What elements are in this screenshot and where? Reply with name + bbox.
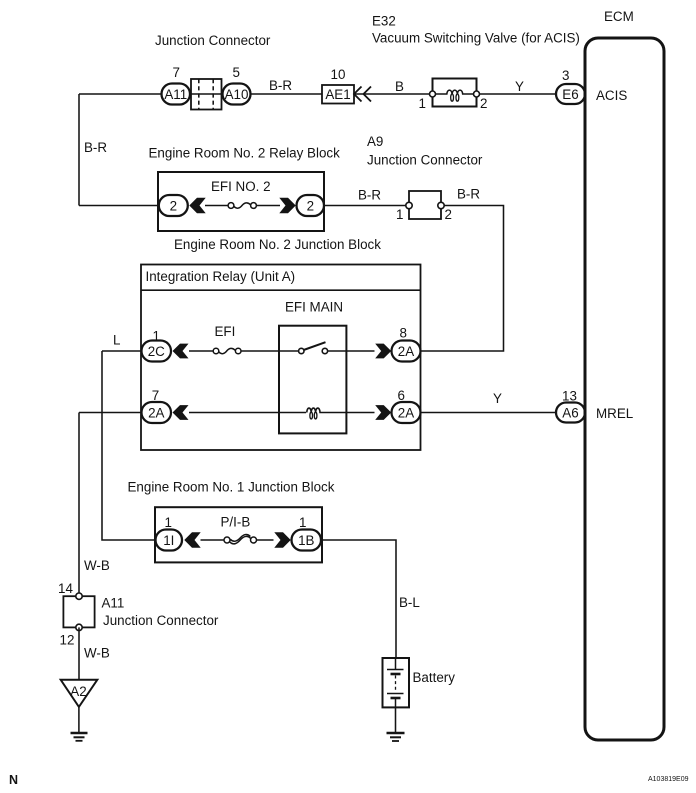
wire 1B to battery [321, 540, 396, 658]
connector 1B [292, 530, 322, 551]
arrow right [274, 532, 290, 548]
relay coil [307, 408, 347, 412]
relay switch node right [322, 348, 327, 353]
svg-text:Engine Room No. 2 Relay Block: Engine Room No. 2 Relay Block [149, 146, 341, 161]
VSV pin 1 node [430, 91, 436, 97]
svg-text:AE1: AE1 [325, 87, 350, 102]
svg-text:6: 6 [398, 388, 405, 403]
ground (A2) [71, 732, 88, 735]
svg-text:1: 1 [299, 515, 306, 530]
svg-text:Junction Connector: Junction Connector [155, 33, 271, 48]
svg-text:2A: 2A [398, 405, 414, 420]
wire [201, 539, 225, 541]
arrow left [189, 198, 205, 214]
node pin 1 [406, 202, 412, 208]
svg-text:EFI NO. 2: EFI NO. 2 [211, 179, 271, 194]
wire A9 down to relay pin 8 [421, 206, 504, 352]
svg-text:Vacuum Switching Valve (for AC: Vacuum Switching Valve (for ACIS) [372, 31, 580, 46]
svg-text:B-R: B-R [457, 187, 480, 202]
relay switch blade [304, 342, 326, 350]
svg-text:2A: 2A [148, 405, 164, 420]
connector AE1 [322, 85, 354, 104]
svg-text:W-B: W-B [84, 558, 110, 573]
junction connector A11 box (bottom) [63, 596, 94, 627]
wire VSV to E6 [480, 93, 557, 95]
wire battery to ground [395, 707, 397, 733]
svg-text:5: 5 [233, 65, 240, 80]
svg-text:7: 7 [152, 388, 159, 403]
svg-text:3: 3 [562, 68, 569, 83]
svg-text:MREL: MREL [596, 406, 633, 421]
wire [189, 350, 213, 352]
arrow left [173, 405, 189, 420]
wire into block [79, 205, 159, 207]
svg-text:B-L: B-L [399, 595, 420, 610]
ground (battery) [387, 732, 405, 735]
ground connector A2 triangle [61, 680, 98, 707]
EFI MAIN relay box [279, 326, 346, 434]
svg-text:W-B: W-B [84, 646, 110, 661]
node pin 12 [76, 624, 82, 630]
connector 2 (left) [159, 195, 188, 216]
battery box [383, 658, 410, 707]
svg-text:A2: A2 [70, 684, 86, 699]
svg-text:2: 2 [170, 198, 177, 213]
svg-text:1I: 1I [163, 533, 174, 548]
svg-text:8: 8 [400, 326, 407, 341]
svg-text:B-R: B-R [269, 78, 292, 93]
wire top row from left corner to A11 [79, 93, 162, 95]
connector E6 [556, 84, 585, 104]
svg-text:E6: E6 [562, 87, 578, 102]
svg-text:P/I-B: P/I-B [221, 515, 251, 530]
title divider [141, 289, 421, 291]
svg-text:1: 1 [419, 96, 426, 111]
svg-text:Y: Y [515, 79, 524, 94]
arrow right [375, 405, 391, 420]
svg-text:E32: E32 [372, 14, 396, 29]
fusible link P/I-B [230, 536, 251, 544]
svg-text:Y: Y [493, 391, 502, 406]
arrow right [279, 198, 295, 214]
junction connector A9 box [409, 191, 441, 219]
wire fuse to relay box [241, 350, 299, 352]
svg-text:10: 10 [331, 67, 346, 82]
fuse EFI NO. 2 [234, 203, 251, 208]
wire W-B from pin7 down to A11 [78, 413, 80, 597]
svg-text:1B: 1B [298, 533, 314, 548]
svg-text:N: N [9, 773, 18, 787]
svg-text:EFI: EFI [215, 324, 236, 339]
svg-text:A11: A11 [102, 596, 125, 611]
chevron arrows at AE1 [354, 87, 371, 102]
arrow left [173, 344, 189, 359]
wire L into 2C [102, 350, 142, 352]
svg-text:Integration Relay (Unit A): Integration Relay (Unit A) [146, 269, 296, 284]
connector A10 [223, 84, 251, 105]
wire [256, 205, 280, 207]
node pin 2 [438, 202, 444, 208]
svg-text:2: 2 [445, 207, 452, 222]
connector 2 (right) [297, 195, 325, 216]
svg-text:Junction Connector: Junction Connector [367, 153, 483, 168]
connector 2A (pin 7) [142, 402, 172, 423]
svg-text:2: 2 [480, 96, 487, 111]
svg-text:EFI MAIN: EFI MAIN [285, 300, 343, 315]
wire A2 to ground [78, 707, 80, 733]
connector A6 [556, 403, 585, 423]
fuse EFI [219, 348, 236, 353]
svg-text:A9: A9 [367, 134, 383, 149]
arrow right [375, 344, 391, 359]
svg-text:14: 14 [58, 581, 73, 596]
wire [257, 539, 274, 541]
ECM module box [585, 38, 664, 740]
connector 1I [156, 530, 183, 551]
svg-text:A6: A6 [562, 406, 578, 421]
connector 2A (pin 6) [392, 402, 421, 423]
svg-text:B-R: B-R [84, 140, 107, 155]
svg-text:Engine Room No. 2 Junction Blo: Engine Room No. 2 Junction Block [174, 237, 381, 252]
svg-text:2A: 2A [398, 344, 414, 359]
svg-text:B: B [395, 79, 404, 94]
wire L from 2C down to 1I [102, 351, 156, 540]
svg-text:A103819E09: A103819E09 [648, 776, 689, 783]
wire block to A9 [324, 205, 406, 207]
svg-text:B-R: B-R [358, 188, 381, 203]
connector A11 (top) [162, 84, 191, 105]
Engine Room No.1 junction block box [155, 507, 322, 562]
svg-text:13: 13 [562, 389, 577, 404]
battery internals [395, 658, 397, 670]
node pin 14 [76, 593, 82, 599]
junction connector box (top) [191, 79, 222, 110]
svg-text:Battery: Battery [413, 670, 456, 685]
svg-text:2C: 2C [148, 344, 165, 359]
Engine Room No.2 relay block box [158, 172, 324, 231]
wire to relay box [189, 412, 306, 414]
svg-text:L: L [113, 333, 120, 348]
wire A11 to A2 [78, 627, 80, 680]
arrow left [184, 532, 200, 548]
VSV coil [436, 90, 474, 94]
relay switch node left [299, 348, 304, 353]
connector 2A (pin 8) [392, 341, 421, 362]
svg-text:Engine Room No. 1 Junction Blo: Engine Room No. 1 Junction Block [128, 480, 335, 495]
svg-text:ECM: ECM [604, 9, 634, 24]
Integration Relay outer box [141, 265, 421, 451]
svg-text:A10: A10 [225, 87, 249, 102]
svg-text:12: 12 [60, 633, 75, 648]
svg-text:7: 7 [173, 65, 180, 80]
svg-text:ACIS: ACIS [596, 88, 627, 103]
svg-text:1: 1 [165, 515, 172, 530]
wire A10 to AE1 [251, 93, 323, 95]
wire B-R left vertical [78, 94, 80, 206]
wire coil to pin 6 [346, 412, 374, 414]
wire row2 from corner to 2A pin7 [79, 412, 142, 414]
VSV E32 solenoid box [433, 79, 477, 107]
wire AE1 to VSV [354, 93, 430, 95]
VSV pin 2 node [474, 91, 480, 97]
wire [205, 205, 228, 207]
svg-text:A11: A11 [164, 87, 187, 102]
wire pin6 to A6 [421, 412, 557, 414]
svg-text:Junction Connector: Junction Connector [103, 613, 219, 628]
svg-text:1: 1 [396, 207, 403, 222]
svg-text:2: 2 [307, 198, 314, 213]
wire switch to pin 8 [328, 350, 375, 352]
connector 2C [142, 341, 172, 362]
